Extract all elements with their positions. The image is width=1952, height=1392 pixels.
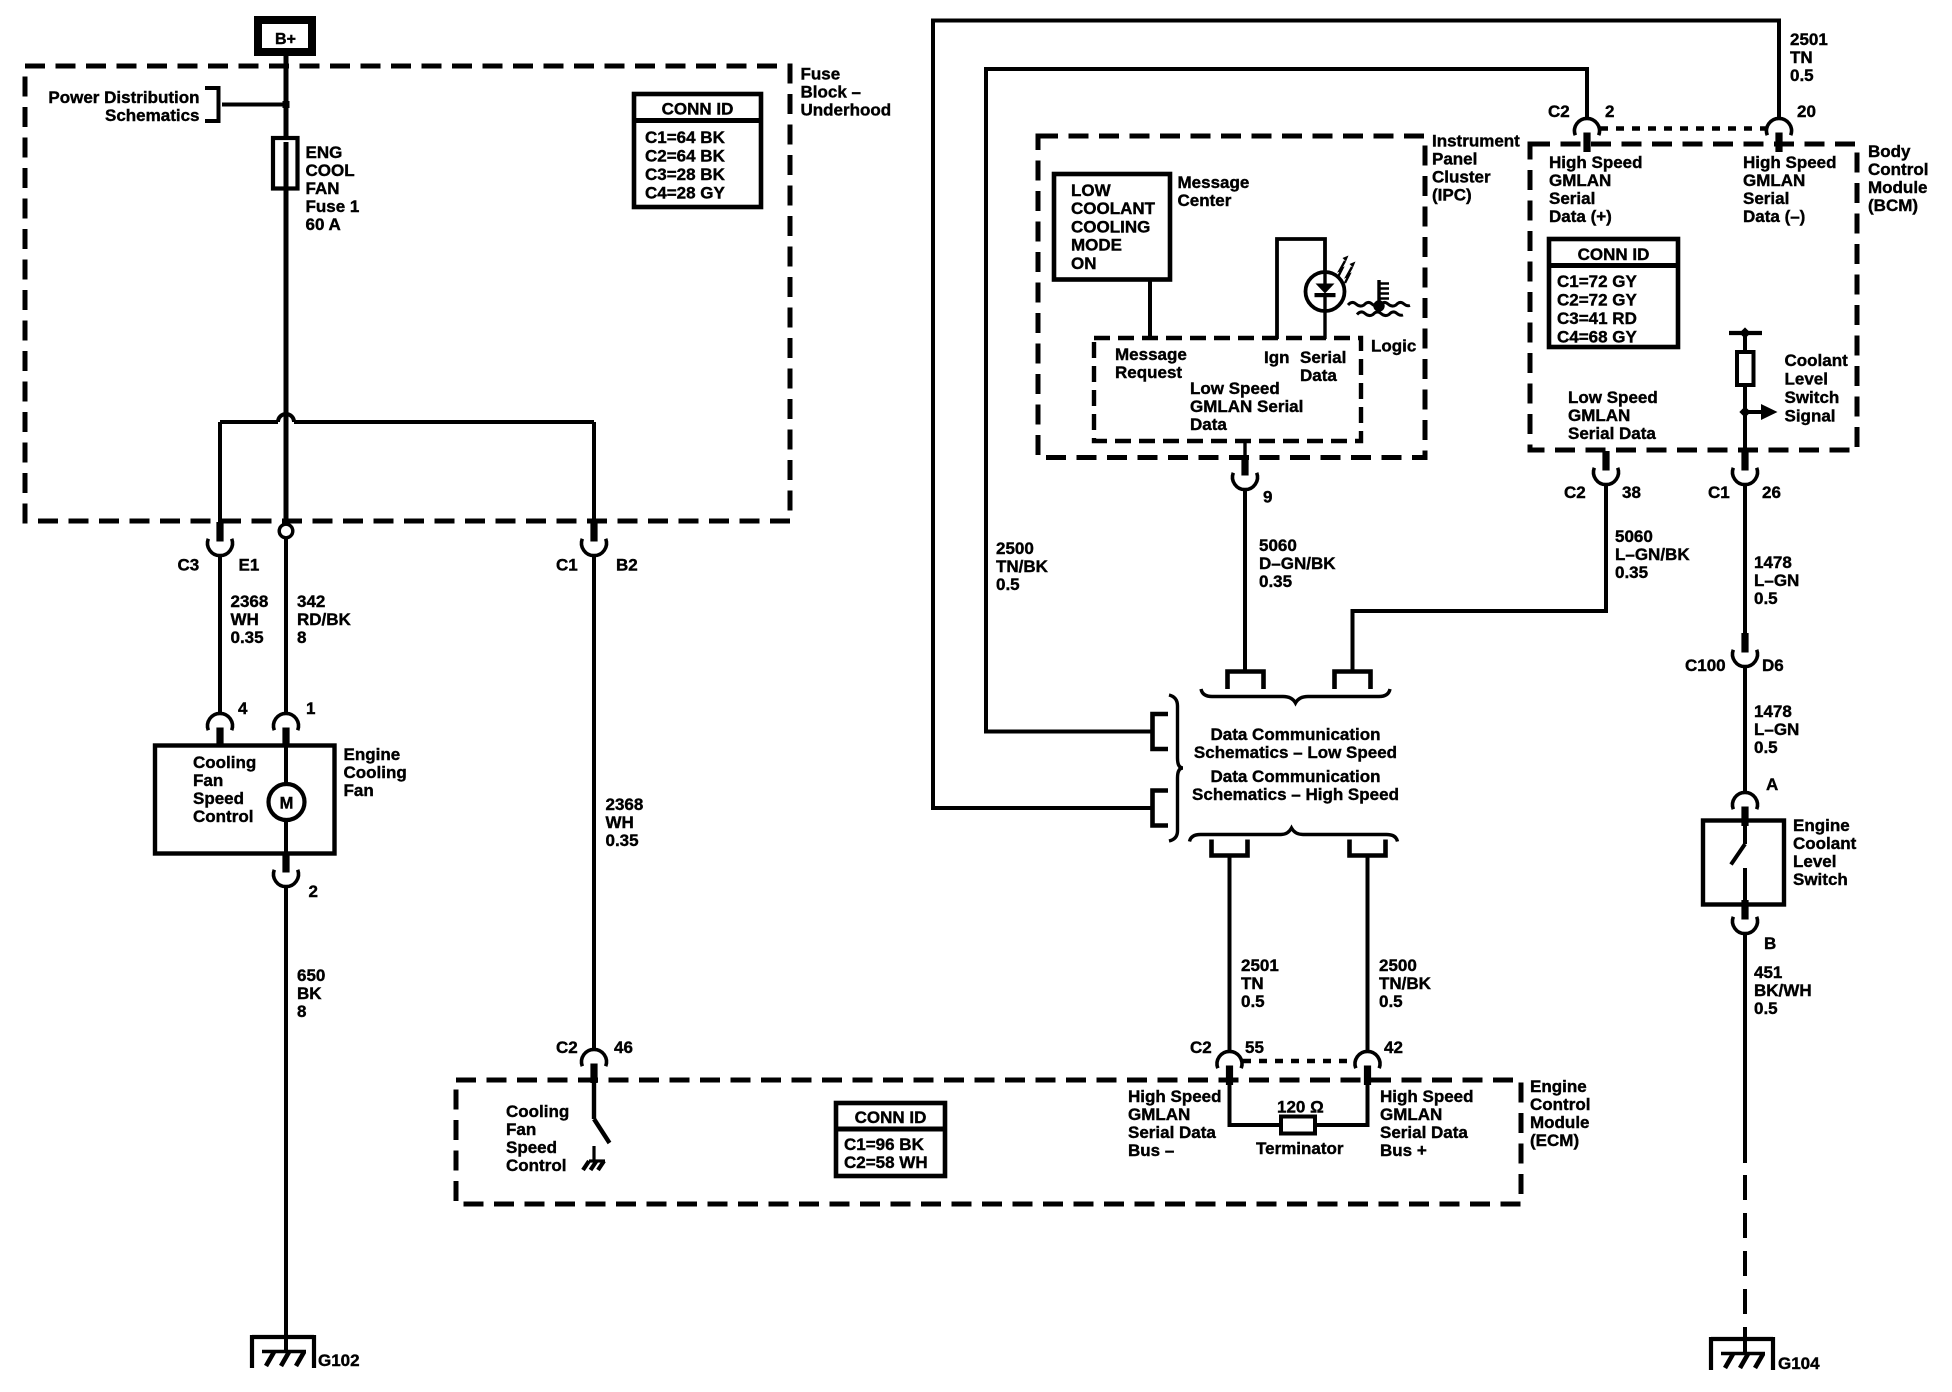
svg-text:Control: Control bbox=[1530, 1095, 1590, 1114]
svg-text:Cooling: Cooling bbox=[193, 753, 256, 772]
connector ECM C2 55 bbox=[1217, 1051, 1242, 1085]
terminal high speed bus plus bbox=[1350, 840, 1386, 856]
svg-text:Panel: Panel bbox=[1432, 150, 1477, 169]
svg-text:Coolant: Coolant bbox=[1785, 351, 1849, 370]
LED diode triangle and bar bbox=[1315, 273, 1336, 339]
svg-text:Fan: Fan bbox=[506, 1120, 536, 1139]
svg-text:D–GN/BK: D–GN/BK bbox=[1259, 554, 1336, 573]
svg-text:Cooling: Cooling bbox=[506, 1102, 569, 1121]
svg-text:A: A bbox=[1766, 775, 1778, 794]
svg-text:Bus +: Bus + bbox=[1380, 1141, 1427, 1160]
svg-text:Module: Module bbox=[1530, 1113, 1590, 1132]
ground internal ECM chassis bbox=[583, 1161, 605, 1170]
svg-text:Low Speed: Low Speed bbox=[1190, 379, 1280, 398]
ECM dashed box bbox=[456, 1080, 1521, 1204]
svg-text:B2: B2 bbox=[616, 556, 638, 575]
svg-text:0.5: 0.5 bbox=[1241, 992, 1265, 1011]
svg-text:C1=64 BK: C1=64 BK bbox=[645, 128, 726, 147]
svg-text:46: 46 bbox=[614, 1038, 633, 1057]
svg-text:Terminator: Terminator bbox=[1256, 1139, 1344, 1158]
conn id table ECM bbox=[836, 1103, 945, 1176]
svg-text:GMLAN: GMLAN bbox=[1549, 171, 1611, 190]
svg-text:Serial Data: Serial Data bbox=[1128, 1123, 1216, 1142]
indicator LED circle bbox=[1306, 272, 1345, 311]
svg-text:8: 8 bbox=[297, 1002, 306, 1021]
svg-text:CONN ID: CONN ID bbox=[855, 1108, 927, 1127]
ground G104 bbox=[1711, 1337, 1773, 1370]
svg-text:Engine: Engine bbox=[1793, 816, 1850, 835]
svg-text:C2=64 BK: C2=64 BK bbox=[645, 147, 726, 166]
svg-text:Data Communication: Data Communication bbox=[1210, 767, 1380, 786]
svg-text:0.5: 0.5 bbox=[1754, 738, 1778, 757]
svg-text:2500: 2500 bbox=[996, 539, 1034, 558]
svg-text:Logic: Logic bbox=[1371, 337, 1416, 356]
svg-text:LOW: LOW bbox=[1071, 181, 1112, 200]
connector ECM 42 bbox=[1355, 1051, 1380, 1085]
svg-text:Request: Request bbox=[1115, 363, 1182, 382]
connector pin 1 bbox=[274, 713, 299, 747]
wire pin1 to motor bbox=[284, 744, 288, 786]
terminal low speed data link left bbox=[1228, 672, 1264, 690]
svg-text:342: 342 bbox=[297, 592, 325, 611]
wire 2368 WH 0.35 down to pin 4 bbox=[218, 556, 222, 716]
svg-text:Power Distribution: Power Distribution bbox=[48, 88, 199, 107]
svg-text:WH: WH bbox=[231, 610, 259, 629]
svg-text:C4=28 GY: C4=28 GY bbox=[645, 184, 726, 203]
svg-text:Fan: Fan bbox=[344, 781, 374, 800]
svg-text:GMLAN: GMLAN bbox=[1568, 406, 1630, 425]
svg-text:5060: 5060 bbox=[1615, 527, 1653, 546]
svg-text:Instrument: Instrument bbox=[1432, 132, 1520, 151]
brace schematics left bbox=[1169, 695, 1183, 841]
svg-text:Module: Module bbox=[1868, 178, 1928, 197]
wire dotted connector line between pins 2 and 20 bbox=[1600, 126, 1768, 130]
svg-text:Signal: Signal bbox=[1785, 407, 1836, 426]
svg-text:Serial: Serial bbox=[1743, 189, 1789, 208]
svg-text:55: 55 bbox=[1245, 1038, 1264, 1057]
svg-text:COOLANT: COOLANT bbox=[1071, 199, 1156, 218]
svg-text:Level: Level bbox=[1785, 370, 1828, 389]
svg-text:Level: Level bbox=[1793, 852, 1836, 871]
svg-text:9: 9 bbox=[1263, 488, 1272, 507]
svg-text:COOLING: COOLING bbox=[1071, 217, 1150, 236]
svg-text:COOL: COOL bbox=[306, 161, 355, 180]
wire pull-up to resistor bbox=[1743, 333, 1747, 352]
svg-text:0.35: 0.35 bbox=[231, 628, 264, 647]
svg-text:High Speed: High Speed bbox=[1128, 1087, 1222, 1106]
switch cooling fan speed control low side bbox=[594, 1081, 610, 1160]
svg-text:2501: 2501 bbox=[1241, 956, 1279, 975]
wire 2368 WH horizontal branch right bbox=[294, 420, 594, 424]
svg-text:GMLAN Serial: GMLAN Serial bbox=[1190, 397, 1303, 416]
svg-text:5060: 5060 bbox=[1259, 536, 1297, 555]
svg-text:Engine: Engine bbox=[1530, 1077, 1587, 1096]
svg-text:Control: Control bbox=[506, 1156, 566, 1175]
wire terminator left leg bbox=[1230, 1083, 1282, 1125]
svg-text:1478: 1478 bbox=[1754, 553, 1792, 572]
svg-text:Schematics – Low Speed: Schematics – Low Speed bbox=[1194, 743, 1397, 762]
svg-text:G104: G104 bbox=[1778, 1354, 1820, 1373]
svg-text:C1=72 GY: C1=72 GY bbox=[1557, 272, 1638, 291]
connector BCM pin 20 bbox=[1767, 118, 1792, 152]
wire B2 down to C2 46 bbox=[592, 556, 596, 1051]
wire resistor to pin 26 bbox=[1743, 385, 1747, 453]
svg-text:1478: 1478 bbox=[1754, 702, 1792, 721]
svg-text:Block –: Block – bbox=[801, 83, 861, 102]
svg-text:2368: 2368 bbox=[231, 592, 269, 611]
wire 2501 TN 0.5 to ECM 55 bbox=[1228, 856, 1232, 1053]
svg-text:Data (+): Data (+) bbox=[1549, 207, 1612, 226]
svg-text:0.35: 0.35 bbox=[606, 831, 639, 850]
svg-text:0.35: 0.35 bbox=[1615, 563, 1648, 582]
svg-text:Serial: Serial bbox=[1549, 189, 1595, 208]
connector BCM C1 26 bbox=[1733, 451, 1758, 485]
svg-text:G102: G102 bbox=[318, 1351, 360, 1370]
bracket power distribution schematics bbox=[205, 88, 219, 121]
LED light emission arrows bbox=[1338, 256, 1356, 284]
wire dotted connector line between 55 and 42 bbox=[1243, 1059, 1354, 1063]
svg-text:CONN ID: CONN ID bbox=[1578, 245, 1650, 264]
svg-text:42: 42 bbox=[1384, 1038, 1403, 1057]
motor M circle bbox=[269, 784, 305, 820]
svg-text:Cooling: Cooling bbox=[344, 763, 407, 782]
wire B+ feeder to fuse bbox=[284, 56, 289, 140]
svg-text:TN/BK: TN/BK bbox=[1379, 974, 1432, 993]
svg-text:Speed: Speed bbox=[506, 1138, 557, 1157]
wire 5060 L-GN/BK from BCM C2 38 bbox=[1353, 485, 1607, 672]
svg-text:RD/BK: RD/BK bbox=[297, 610, 352, 629]
svg-text:CONN ID: CONN ID bbox=[662, 100, 734, 119]
svg-text:(IPC): (IPC) bbox=[1432, 186, 1472, 205]
arrow coolant level switch signal bbox=[1745, 410, 1763, 414]
connector B bbox=[1733, 900, 1758, 934]
wire 1478 L-GN upper bbox=[1743, 485, 1747, 635]
svg-text:C2: C2 bbox=[1548, 102, 1570, 121]
svg-text:2: 2 bbox=[309, 882, 318, 901]
svg-text:C3=28 BK: C3=28 BK bbox=[645, 165, 726, 184]
connector C2 46 bbox=[582, 1049, 607, 1083]
svg-text:Message: Message bbox=[1178, 173, 1250, 192]
svg-text:M: M bbox=[280, 795, 294, 813]
svg-text:2: 2 bbox=[1605, 102, 1614, 121]
connector IPC pin 9 bbox=[1243, 441, 1246, 457]
svg-text:4: 4 bbox=[238, 699, 248, 718]
svg-text:C2: C2 bbox=[1564, 483, 1586, 502]
wire 2368 WH horizontal branch left bbox=[220, 420, 278, 424]
svg-text:D6: D6 bbox=[1762, 656, 1784, 675]
svg-text:B+: B+ bbox=[275, 31, 296, 48]
svg-text:Cluster: Cluster bbox=[1432, 168, 1491, 187]
svg-text:(ECM): (ECM) bbox=[1530, 1131, 1579, 1150]
svg-text:Control: Control bbox=[193, 807, 253, 826]
wire motor to box bottom bbox=[284, 819, 288, 854]
svg-text:GMLAN: GMLAN bbox=[1380, 1105, 1442, 1124]
svg-text:TN/BK: TN/BK bbox=[996, 557, 1049, 576]
svg-text:0.5: 0.5 bbox=[996, 575, 1020, 594]
svg-text:Engine: Engine bbox=[344, 745, 401, 764]
svg-text:ENG: ENG bbox=[306, 143, 343, 162]
wire branch down to C1 B2 bbox=[592, 422, 596, 522]
svg-text:20: 20 bbox=[1797, 102, 1816, 121]
svg-text:BK/WH: BK/WH bbox=[1754, 981, 1812, 1000]
svg-text:TN: TN bbox=[1790, 48, 1813, 67]
wire hop over crossing bbox=[278, 414, 294, 422]
svg-text:1: 1 bbox=[306, 699, 315, 718]
svg-text:2500: 2500 bbox=[1379, 956, 1417, 975]
connector C100 D6 bbox=[1733, 633, 1758, 667]
svg-text:GMLAN: GMLAN bbox=[1743, 171, 1805, 190]
svg-text:L–GN/BK: L–GN/BK bbox=[1615, 545, 1690, 564]
fuse ENG COOL FAN Fuse 1 bbox=[273, 138, 298, 189]
terminal schematics side lower bbox=[1153, 791, 1169, 826]
svg-text:Data Communication: Data Communication bbox=[1210, 725, 1380, 744]
connector C1 B2 bbox=[582, 522, 607, 556]
svg-text:Switch: Switch bbox=[1793, 870, 1848, 889]
svg-text:120 Ω: 120 Ω bbox=[1277, 1098, 1324, 1117]
svg-text:Schematics: Schematics bbox=[105, 106, 200, 125]
cooling fan speed control module box bbox=[155, 746, 335, 854]
svg-text:Underhood: Underhood bbox=[801, 101, 892, 120]
svg-text:GMLAN: GMLAN bbox=[1128, 1105, 1190, 1124]
svg-text:High Speed: High Speed bbox=[1380, 1087, 1474, 1106]
BCM coolant level pull-up top bar bbox=[1729, 331, 1762, 335]
IPC low coolant message box bbox=[1054, 174, 1170, 280]
conn id table fuse block bbox=[634, 94, 761, 207]
svg-text:Switch: Switch bbox=[1785, 388, 1840, 407]
connector pin 4 bbox=[208, 713, 233, 747]
svg-text:E1: E1 bbox=[239, 556, 260, 575]
svg-text:Data: Data bbox=[1190, 415, 1227, 434]
svg-text:Data: Data bbox=[1300, 366, 1337, 385]
connector A bbox=[1733, 792, 1758, 826]
wire 650 BK 8 to ground bbox=[284, 887, 288, 1352]
resistor coolant level pull-up bbox=[1737, 352, 1754, 385]
wire 342 RD/BK 8 down to pin 1 bbox=[284, 537, 288, 715]
svg-text:Speed: Speed bbox=[193, 789, 244, 808]
wire fuse to hop crossing bbox=[284, 186, 289, 522]
svg-text:C1=96 BK: C1=96 BK bbox=[844, 1135, 925, 1154]
svg-text:C2: C2 bbox=[556, 1038, 578, 1057]
svg-text:Low Speed: Low Speed bbox=[1568, 388, 1658, 407]
wire power distribution tap bbox=[222, 103, 284, 107]
node power distribution tap junction bbox=[283, 101, 290, 108]
svg-text:60 A: 60 A bbox=[306, 215, 341, 234]
svg-text:High Speed: High Speed bbox=[1549, 153, 1643, 172]
connector BCM pin C2 2 bbox=[1575, 118, 1600, 152]
terminal high speed bus minus bbox=[1212, 840, 1248, 856]
brace data communication top bbox=[1201, 689, 1390, 703]
svg-text:Serial Data: Serial Data bbox=[1568, 424, 1656, 443]
svg-text:Serial: Serial bbox=[1300, 348, 1346, 367]
coolant temperature telltale icon bbox=[1348, 280, 1410, 316]
svg-text:C2=72 GY: C2=72 GY bbox=[1557, 291, 1638, 310]
IPC logic inner dashed box bbox=[1094, 338, 1361, 441]
svg-text:Bus –: Bus – bbox=[1128, 1141, 1174, 1160]
B+ power symbol box bbox=[258, 20, 312, 52]
terminal schematics side upper bbox=[1153, 714, 1169, 749]
wire Ign loop bbox=[1277, 239, 1325, 339]
wire high speed gmlan from BCM pin 2 run bbox=[986, 69, 1587, 732]
svg-text:Serial Data: Serial Data bbox=[1380, 1123, 1468, 1142]
wire message request bbox=[1148, 280, 1152, 340]
resistor 120 ohm terminator bbox=[1281, 1117, 1315, 1134]
BCM dashed box bbox=[1530, 144, 1857, 450]
svg-text:BK: BK bbox=[297, 984, 322, 1003]
svg-text:Coolant: Coolant bbox=[1793, 834, 1857, 853]
engine coolant level switch box bbox=[1703, 821, 1784, 905]
ground G102 bbox=[252, 1335, 314, 1368]
svg-text:WH: WH bbox=[606, 813, 634, 832]
svg-text:MODE: MODE bbox=[1071, 236, 1122, 255]
node coolant level signal junction bbox=[1739, 406, 1750, 417]
wire terminator right leg bbox=[1315, 1083, 1368, 1125]
terminal low speed data link right bbox=[1335, 672, 1371, 690]
brace data communication bottom bbox=[1190, 828, 1398, 842]
svg-text:Message: Message bbox=[1115, 345, 1187, 364]
connector pin 2 bbox=[274, 853, 299, 887]
svg-text:L–GN: L–GN bbox=[1754, 571, 1799, 590]
svg-text:B: B bbox=[1764, 934, 1776, 953]
svg-text:C1: C1 bbox=[556, 556, 578, 575]
node pull-up junction bbox=[1739, 327, 1750, 338]
svg-text:Body: Body bbox=[1868, 142, 1911, 161]
svg-text:0.5: 0.5 bbox=[1754, 999, 1778, 1018]
svg-text:Fuse 1: Fuse 1 bbox=[306, 197, 360, 216]
svg-text:Fuse: Fuse bbox=[801, 65, 841, 84]
IPC dashed box bbox=[1038, 136, 1425, 458]
svg-text:C4=68 GY: C4=68 GY bbox=[1557, 328, 1638, 347]
svg-text:0.5: 0.5 bbox=[1379, 992, 1403, 1011]
svg-text:8: 8 bbox=[297, 628, 306, 647]
svg-text:C2=58 WH: C2=58 WH bbox=[844, 1153, 928, 1172]
switch engine coolant level bbox=[1731, 824, 1745, 903]
svg-text:26: 26 bbox=[1762, 483, 1781, 502]
svg-text:C3=41 RD: C3=41 RD bbox=[1557, 309, 1637, 328]
wire 451 BK/WH solid part bbox=[1743, 934, 1747, 1164]
svg-text:0.5: 0.5 bbox=[1790, 66, 1814, 85]
svg-text:TN: TN bbox=[1241, 974, 1264, 993]
svg-text:C100: C100 bbox=[1685, 656, 1726, 675]
svg-text:C3: C3 bbox=[178, 556, 200, 575]
wire 2500 TN/BK 0.5 to ECM 42 bbox=[1366, 856, 1370, 1053]
svg-text:Fan: Fan bbox=[193, 771, 223, 790]
svg-text:Data (–): Data (–) bbox=[1743, 207, 1805, 226]
svg-text:Center: Center bbox=[1178, 191, 1232, 210]
wire high speed gmlan from BCM pin 20 top run bbox=[933, 21, 1779, 809]
wire 451 BK/WH dashed part bbox=[1743, 1175, 1747, 1352]
svg-text:ON: ON bbox=[1071, 254, 1097, 273]
wire branch down to C3 bbox=[218, 422, 222, 522]
svg-text:2368: 2368 bbox=[606, 795, 644, 814]
svg-text:650: 650 bbox=[297, 966, 325, 985]
svg-text:C1: C1 bbox=[1708, 483, 1730, 502]
svg-text:0.5: 0.5 bbox=[1754, 589, 1778, 608]
svg-text:Ign: Ign bbox=[1264, 348, 1290, 367]
svg-text:451: 451 bbox=[1754, 963, 1782, 982]
connector C3 E1 bbox=[208, 522, 233, 556]
svg-text:38: 38 bbox=[1622, 483, 1641, 502]
wire 1478 L-GN lower bbox=[1743, 667, 1747, 795]
fuse block underhood dashed box bbox=[25, 66, 790, 521]
svg-text:0.35: 0.35 bbox=[1259, 572, 1292, 591]
svg-text:High Speed: High Speed bbox=[1743, 153, 1837, 172]
connector BCM C2 38 bbox=[1594, 451, 1619, 485]
grommet ring at fuse block boundary bbox=[279, 524, 293, 538]
svg-text:FAN: FAN bbox=[306, 179, 340, 198]
svg-text:(BCM): (BCM) bbox=[1868, 196, 1918, 215]
conn id table BCM bbox=[1549, 239, 1678, 347]
svg-text:L–GN: L–GN bbox=[1754, 720, 1799, 739]
wire 5060 D-GN/BK 0.35 bbox=[1243, 490, 1247, 672]
svg-text:2501: 2501 bbox=[1790, 30, 1828, 49]
svg-text:Schematics – High Speed: Schematics – High Speed bbox=[1192, 785, 1399, 804]
svg-text:Control: Control bbox=[1868, 160, 1928, 179]
svg-text:C2: C2 bbox=[1190, 1038, 1212, 1057]
